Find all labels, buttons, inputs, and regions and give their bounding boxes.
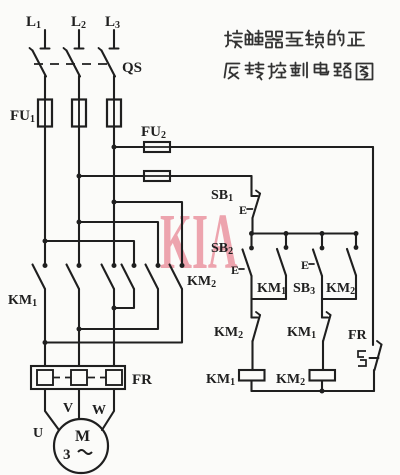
label 3~ bbox=[63, 447, 92, 463]
switch QS pole 1 bbox=[30, 48, 47, 77]
wire bbox=[170, 146, 373, 148]
QS dashed link bbox=[34, 63, 110, 65]
contact KM1 auxiliary bbox=[277, 245, 288, 299]
wire bbox=[79, 175, 144, 177]
wire bbox=[250, 176, 252, 196]
wire KM2 pole3 to phase1 bbox=[45, 289, 182, 343]
wire bbox=[285, 234, 287, 248]
fuse FU2 lower bbox=[144, 171, 170, 181]
wire bbox=[114, 202, 182, 266]
label E actuator SB3 bbox=[301, 258, 314, 272]
label SB3 bbox=[293, 281, 315, 297]
wire bbox=[78, 289, 80, 366]
wire bbox=[44, 289, 46, 366]
pushbutton SB2 bbox=[243, 246, 254, 299]
label W bbox=[92, 403, 106, 418]
wire bbox=[250, 381, 252, 392]
wire bbox=[79, 222, 158, 266]
contactor KM1 main contact 1 bbox=[33, 263, 48, 289]
wire bbox=[321, 299, 323, 318]
label KM2 coil bbox=[276, 372, 305, 388]
wire bbox=[113, 289, 115, 366]
wire bbox=[250, 234, 252, 249]
wire bbox=[78, 76, 80, 100]
wire bbox=[113, 76, 115, 100]
wire bbox=[322, 298, 356, 300]
thermal relay FR heater box bbox=[31, 366, 125, 389]
junction bbox=[77, 327, 82, 332]
wire bbox=[321, 381, 323, 392]
fuse FU1 pole 1 bbox=[38, 99, 52, 127]
label KM2 interlock bbox=[214, 325, 243, 341]
svg-text:E: E bbox=[231, 263, 239, 277]
wire KM2 pole1 to phase3 bbox=[114, 289, 134, 308]
contact KM2 interlock NC bbox=[252, 312, 261, 370]
svg-text:E: E bbox=[301, 258, 309, 272]
terminal L3 bbox=[110, 30, 119, 49]
label SB2 bbox=[211, 241, 233, 257]
label FR main bbox=[132, 372, 152, 388]
junction bbox=[112, 306, 117, 311]
label KM2 aux bbox=[326, 281, 355, 297]
wire bbox=[321, 234, 323, 249]
junction bbox=[284, 231, 289, 236]
svg-text:M: M bbox=[75, 428, 90, 445]
coil KM2 bbox=[310, 370, 336, 381]
label KM1 coil bbox=[206, 372, 235, 388]
wire bbox=[252, 298, 287, 300]
contactor KM2 main contact 2 bbox=[146, 263, 161, 289]
label SB1 bbox=[211, 188, 233, 204]
wire bbox=[355, 234, 357, 248]
junction bbox=[43, 340, 48, 345]
junction bbox=[320, 389, 325, 394]
svg-text:W: W bbox=[92, 403, 106, 418]
pushbutton SB1 bbox=[252, 191, 261, 234]
fuse FU2 upper bbox=[144, 142, 170, 152]
node on L2 to KM2 pole 2 bbox=[77, 220, 82, 225]
wire bbox=[44, 126, 46, 266]
svg-text:V: V bbox=[63, 401, 73, 416]
wire bbox=[250, 299, 252, 318]
wire bbox=[45, 389, 59, 430]
label U bbox=[33, 426, 43, 441]
pushbutton SB3 bbox=[313, 246, 324, 299]
label L1 bbox=[26, 14, 41, 31]
label E actuator SB1 bbox=[239, 203, 253, 217]
svg-text:E: E bbox=[239, 203, 247, 217]
title text bbox=[225, 31, 373, 80]
label V bbox=[63, 401, 73, 416]
terminal L1 bbox=[41, 30, 50, 49]
junction bbox=[320, 231, 325, 236]
wire bbox=[78, 126, 80, 266]
label KM2 main bbox=[187, 274, 216, 290]
contact FR overload NC bbox=[370, 341, 382, 391]
wire KM2 pole2 to phase2 bbox=[79, 289, 158, 329]
node on L3 feeding FU2 upper bbox=[112, 145, 117, 150]
wire bbox=[44, 76, 46, 100]
contactor KM2 main contact 3 bbox=[170, 263, 185, 289]
coil KM1 bbox=[239, 370, 265, 381]
node on L1 to KM2 pole 1 bbox=[43, 239, 48, 244]
svg-text:FR: FR bbox=[348, 328, 368, 343]
label M bbox=[75, 428, 90, 445]
node on L2 feeding FU2 lower bbox=[77, 174, 82, 179]
label E actuator SB2 bbox=[231, 263, 244, 277]
contactor KM1 main contact 2 bbox=[67, 263, 82, 289]
label KM1 interlock bbox=[287, 325, 316, 341]
node on L3 to KM2 pole 3 bbox=[112, 200, 117, 205]
fuse FU1 pole 3 bbox=[107, 99, 121, 127]
wire control bottom bus bbox=[252, 390, 375, 392]
label FR control bbox=[348, 328, 368, 343]
svg-text:FR: FR bbox=[132, 372, 152, 388]
label KM1 main bbox=[8, 293, 37, 309]
wire bbox=[170, 175, 252, 177]
wire bbox=[45, 241, 134, 266]
wire control bus bbox=[252, 232, 357, 234]
switch QS pole 3 bbox=[99, 48, 116, 77]
contactor KM2 main contact 1 bbox=[122, 263, 137, 289]
label L3 bbox=[105, 14, 120, 31]
svg-text:3: 3 bbox=[63, 447, 71, 463]
thermal actuator FR bbox=[358, 351, 366, 366]
label FU2 bbox=[141, 124, 166, 141]
junction bbox=[354, 231, 359, 236]
svg-text:QS: QS bbox=[122, 60, 142, 76]
contact KM2 auxiliary bbox=[347, 245, 358, 299]
contactor KM1 main contact 3 bbox=[102, 263, 117, 289]
svg-text:U: U bbox=[33, 426, 43, 441]
contact KM1 interlock NC bbox=[322, 312, 331, 370]
wire bbox=[78, 389, 80, 419]
switch QS pole 2 bbox=[64, 48, 81, 77]
fuse FU1 pole 2 bbox=[72, 99, 86, 127]
junction bbox=[249, 231, 254, 236]
terminal L2 bbox=[75, 30, 84, 49]
label KM1 aux bbox=[257, 281, 286, 297]
label QS bbox=[122, 60, 142, 76]
wire bbox=[102, 389, 114, 430]
wire right rail bbox=[372, 147, 374, 345]
label FU1 bbox=[10, 108, 35, 125]
wire bbox=[113, 126, 115, 266]
motor M1 bbox=[54, 419, 108, 473]
label L2 bbox=[71, 14, 86, 31]
KIA watermark bbox=[160, 198, 238, 286]
wire bbox=[114, 146, 144, 148]
